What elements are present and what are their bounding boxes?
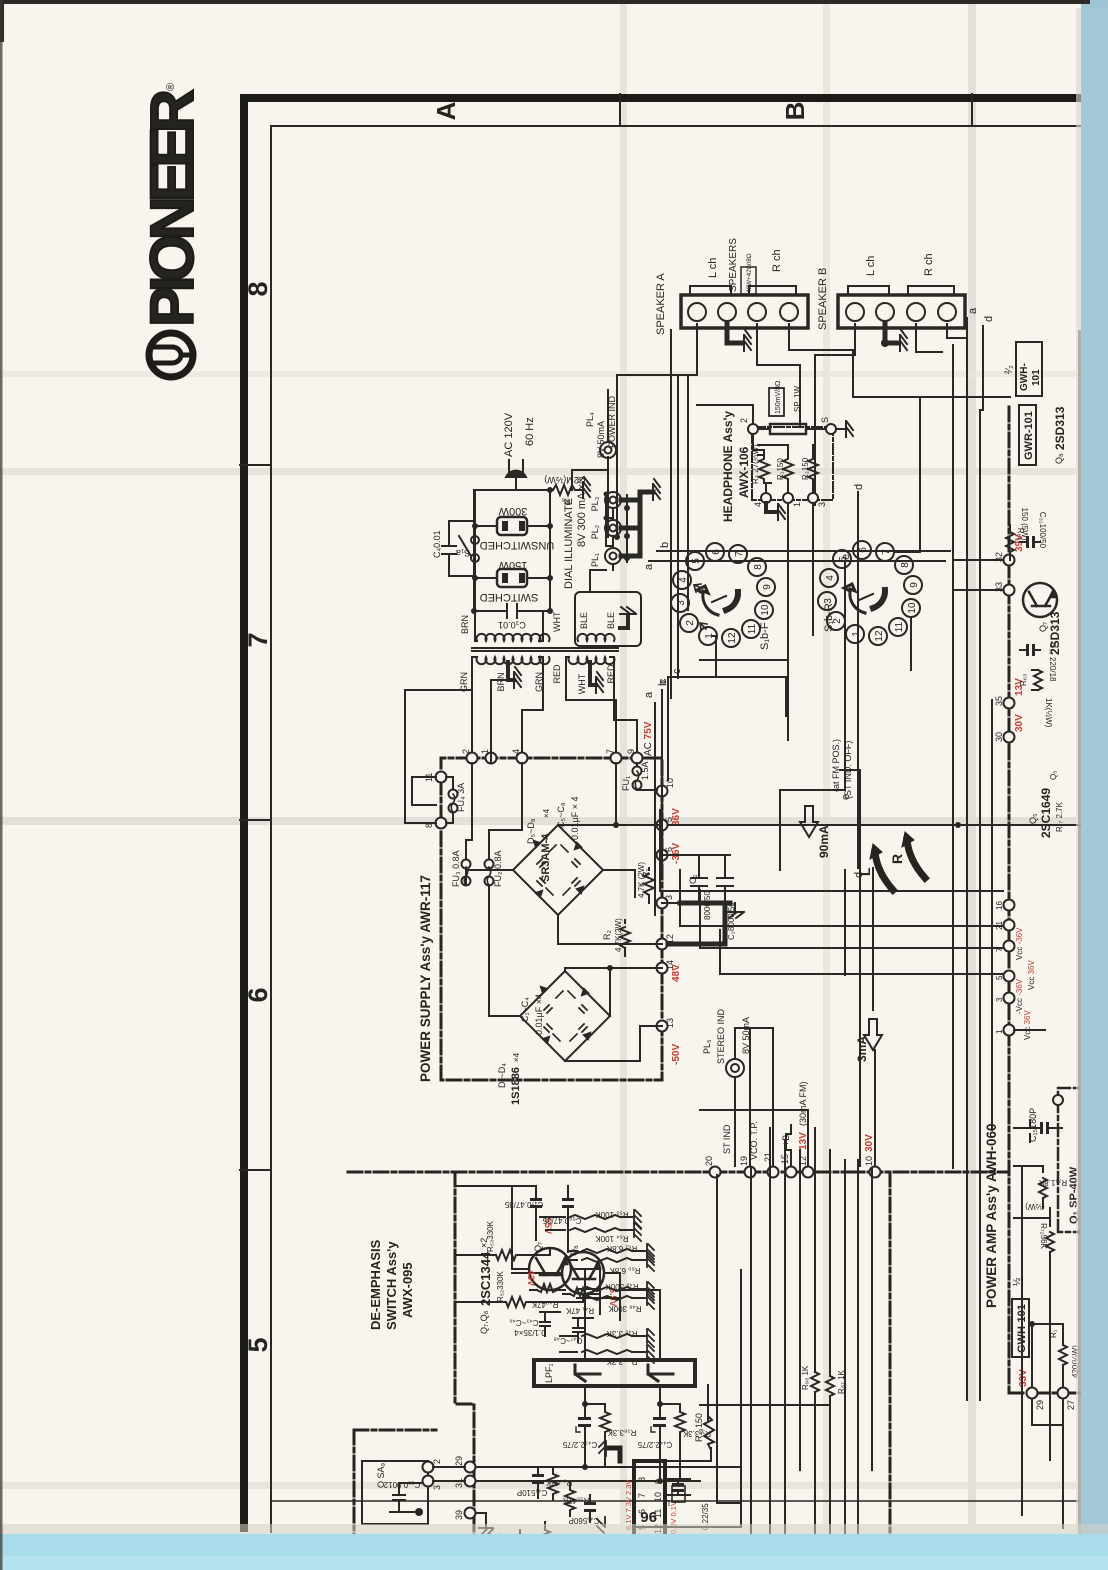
svg-text:3mA: 3mA [855,1036,869,1062]
svg-text:WHT: WHT [552,611,562,632]
svg-text:R₃₈3.3K: R₃₈3.3K [607,1428,636,1437]
svg-text:11: 11 [424,773,434,782]
fold crease vertical 1b [823,4,830,1524]
svg-text:8: 8 [753,564,764,570]
svg-text:PL₁: PL₁ [590,553,600,567]
capacitor C52 0.0012 [390,1483,428,1516]
svg-text:S₁a: S₁a [456,548,470,558]
svg-text:DIAL ILLUMINATE: DIAL ILLUMINATE [563,498,575,589]
svg-text:8: 8 [900,562,911,568]
svg-text:SPEAKER B: SPEAKER B [817,268,829,330]
wire trio v678 [677,375,679,678]
svg-text:AC 120V: AC 120V [503,412,515,457]
ground pin 5 [836,428,844,430]
resistor R38 3.3K [585,1404,610,1467]
pin 35 [1004,698,1015,709]
wiper F [697,586,718,615]
svg-text:1: 1 [704,633,715,639]
svg-text:LPF₁: LPF₁ [544,1363,554,1383]
power amp boundary dash-dot [1009,407,1085,1393]
secondary 1 leads [472,657,477,758]
AC plug P1 [506,460,526,490]
svg-text:12: 12 [727,632,738,644]
wire pin 1 down [787,503,789,740]
svg-text:C₁~C₄: C₁~C₄ [520,997,530,1022]
svg-text:13: 13 [665,1018,675,1028]
svg-text:×4: ×4 [542,808,551,818]
svg-text:5: 5 [243,1337,273,1352]
svg-text:-36V: -36V [671,843,682,864]
ground speaker A return [744,330,751,351]
svg-text:a: a [643,563,655,570]
svg-text:SPEAKERS: SPEAKERS [728,238,739,292]
pin 3 [657,898,668,909]
svg-text:2: 2 [461,749,471,754]
wire d mid [857,492,859,868]
svg-text:GWH-: GWH- [1019,363,1030,391]
wire pin15 [786,1125,791,1166]
svg-text:C₅₂0.0012: C₅₂0.0012 [383,1480,420,1489]
pin 3 [808,493,818,503]
lamp PL1 [605,548,621,564]
svg-text:S₁b-F: S₁b-F [759,622,771,650]
svg-text:7: 7 [734,551,745,557]
svg-text:3: 3 [817,502,827,507]
svg-text:30V: 30V [1014,714,1025,732]
svg-text:6: 6 [858,547,869,553]
wire bridge2 right [609,968,611,1016]
svg-text:8V 50mA: 8V 50mA [741,1017,751,1054]
svg-text:7: 7 [881,549,892,555]
wire AC hot rail [475,489,553,491]
svg-text:R₇₆1.8K: R₇₆1.8K [1038,1178,1067,1187]
svg-text:30: 30 [994,732,1004,742]
svg-text:C₃0.01: C₃0.01 [498,620,526,630]
svg-text:GWR-101: GWR-101 [1023,411,1035,460]
svg-text:POWER IND: POWER IND [607,395,617,448]
resistor R43 150 [704,1385,714,1448]
fold crease horizontal 2 [0,817,1076,825]
wire pin11 loop [412,777,436,805]
svg-text:VCO. T.P.: VCO. T.P. [749,1121,759,1160]
svg-text:AWX-095: AWX-095 [400,1262,415,1318]
svg-text:7: 7 [637,1493,647,1498]
fuse FU3 0.8A [462,860,471,886]
svg-text:27: 27 [1066,1400,1076,1410]
resistor R63 1K [1032,670,1042,690]
resistor R50 150(5W) [1006,525,1014,560]
arrow L thick [870,844,893,890]
wires LPF to transistors [571,1269,660,1360]
svg-text:A: A [431,101,461,120]
Pioneer logo symbol [149,333,194,377]
svg-text:9: 9 [762,584,773,590]
BLE ground [620,616,628,628]
svg-text:35: 35 [994,696,1004,706]
wire amp internal 2 [1049,1208,1051,1460]
pin 39 [465,1508,476,1519]
resistor bank R55 R54 R51 R50 R49 R48 R45 R44 [540,1215,645,1354]
pin 10 [657,786,668,797]
power supply boundary [441,758,662,1080]
wire bottom bundle v815 [814,1128,816,1570]
svg-text:R₈₇ 1K: R₈₇ 1K [837,1369,846,1394]
wire Vcc bundle 4 [720,973,1003,975]
capacitor C50 0.47/35 [562,1186,574,1252]
capacitor 220/18 [1020,644,1040,656]
svg-text:42W+42W/8Ω: 42W+42W/8Ω [746,253,753,293]
wire bottom bundle v858 [857,1160,859,1570]
capacitor C44 2.2/75 [651,1386,666,1481]
svg-text:e: e [840,554,852,560]
resistor R97 1K [826,1376,834,1396]
speaker B terminal strip [838,295,965,328]
pin 13 [657,1021,668,1032]
wire Vcc bundle 2 [680,925,1003,927]
resistor R52 [506,1297,526,1307]
LPF1 block [534,1360,695,1386]
svg-text:Q₇: Q₇ [533,1242,543,1252]
svg-text:R₉₈ 1K: R₉₈ 1K [801,1365,810,1390]
pin 4 [517,753,528,764]
fuse FU2 0.8A [485,860,494,886]
pin 21 [768,1167,779,1178]
pin 1pa [1004,1025,1015,1036]
svg-text:R₁150: R₁150 [776,458,785,480]
wire a long [654,703,656,915]
bracket L ch B [848,286,889,293]
svg-text:4: 4 [825,575,836,581]
IC box [634,1461,665,1570]
svg-text:R₅₀ 6.8K: R₅₀ 6.8K [609,1266,641,1275]
svg-text:9: 9 [653,1479,663,1484]
Q1 SP-40W dashed box [1053,1088,1084,1232]
svg-text:PIONEER: PIONEER [138,90,206,327]
wire top rail to transformer [474,490,476,641]
svg-text:R₇₇ 2.7K: R₇₇ 2.7K [1055,801,1064,832]
svg-text:UNSWITCHED: UNSWITCHED [480,539,555,551]
pin 5 [657,820,668,831]
svg-text:C₁: C₁ [688,874,698,884]
fuse FU4 3A [446,777,458,823]
thick lamp return bus [621,492,653,556]
svg-text:1: 1 [792,502,802,507]
svg-text:FU₃ 0.8A: FU₃ 0.8A [451,850,461,887]
svg-text:R₄₀47K: R₄₀47K [531,1300,558,1309]
wire bottom bundle v872 [871,1168,873,1470]
wire pin32 left [955,559,1003,561]
pin 11 [436,772,447,783]
svg-text:8V 50mA: 8V 50mA [596,421,606,458]
svg-text:1: 1 [995,1029,1004,1034]
resistor R34 47K [548,1467,558,1500]
svg-text:RED: RED [552,664,562,684]
pin 1 [783,493,793,503]
switch S1a [459,536,479,562]
inner border line [271,126,1083,1532]
svg-text:-Vcc -36V: -Vcc -36V [1015,978,1024,1014]
svg-text:5: 5 [995,975,1004,980]
wire pin29 drop [1032,1393,1063,1528]
fuse FU1 1.5A [633,763,658,790]
svg-text:SWITCHED: SWITCHED [480,591,539,603]
svg-text:0.1/35×4: 0.1/35×4 [514,1328,546,1337]
outer border frame [240,94,1083,1532]
svg-text:1K(½W): 1K(½W) [1044,698,1053,728]
wire speaker B terminal 4 [947,324,965,338]
svg-text:2SC1649: 2SC1649 [1039,788,1053,838]
svg-text:2SD313: 2SD313 [1053,406,1067,450]
ground after R5 [577,477,590,498]
wire d lower [872,868,874,1010]
svg-text:Q₅: Q₅ [1049,771,1058,780]
svg-text:SWITCH Assʹy: SWITCH Assʹy [384,1241,399,1330]
pin 3d [423,1476,434,1487]
ground speaker B return [900,330,907,351]
SA9 boundary corner [353,1430,356,1540]
resistor sp level [770,424,806,434]
wire bridge1 right [603,870,635,897]
tuner boundary dash-dot [348,1171,1008,1174]
svg-text:FU₂ 0.8A: FU₂ 0.8A [493,850,503,887]
svg-text:C₄₃2.2/75: C₄₃2.2/75 [562,1440,597,1449]
wire trio v688 [687,375,689,610]
svg-text:C₄0.01: C₄0.01 [432,530,442,558]
svg-text:RED: RED [606,664,616,684]
svg-text:BLE: BLE [579,612,589,629]
capacitor C42 [514,1530,526,1556]
wire u910 [700,659,788,661]
svg-text:4.7K(2W): 4.7K(2W) [614,918,623,952]
capacitor C4 0.01 [442,521,475,576]
capacitor C15 180P [1014,1030,1062,1142]
svg-text:16: 16 [995,901,1004,910]
boxed GWH-101 1/2 [1012,1277,1029,1357]
svg-text:4: 4 [511,749,521,754]
resistor R3 27 [759,455,769,483]
R41 47K R40 47K resistors [530,1284,598,1296]
svg-text:e: e [840,794,852,800]
capacitor L7 0.22/35 [665,1479,690,1502]
svg-text:36V: 36V [671,808,682,826]
svg-text:13V: 13V [798,1132,809,1150]
pins 29 27 [1027,1388,1038,1399]
wire bundle v967 [966,345,968,1400]
wire v717 long [717,1175,741,1503]
arrow R thick [902,832,925,878]
wire 36V rail [668,824,1085,826]
wire bottom bundle v770 [769,1128,771,1570]
wire pin33 left [953,589,1003,591]
pin 12 [657,939,668,950]
svg-text:10: 10 [760,604,771,616]
bridge rectifier D1-D4 [520,971,610,1061]
capacitor C3 0.01 [471,490,553,618]
wire IC bottom corner [634,1270,741,1527]
svg-text:10: 10 [665,778,675,788]
wire pin 2 up [697,405,753,424]
svg-text:BRN: BRN [496,672,506,691]
svg-text:C₄₉560P: C₄₉560P [569,1516,600,1525]
capacitor C2 8000/50 [717,855,733,903]
svg-text:2: 2 [432,1459,442,1464]
emitter wires down [571,1269,600,1314]
wire speaker B terminal 3 [916,324,942,352]
svg-text:300W: 300W [498,505,527,517]
svg-text:R: R [889,854,905,864]
thick return speaker A terminal 2 [727,324,741,343]
svg-text:PL₂: PL₂ [590,524,600,539]
wire pin1 stub [491,680,510,763]
wire from F contact 1 [668,636,786,716]
thick ground IC [608,1448,620,1461]
de-emphasis boundary [455,1172,474,1570]
capacitor C41 510P [532,1467,544,1498]
bracket R ch B [908,286,954,293]
wire long v751 [750,1168,752,1534]
pin 2 [467,753,478,764]
svg-text:0.01μF × 4: 0.01μF × 4 [570,797,580,840]
pin 20 [710,1167,721,1178]
right blue scanner band [1081,0,1108,1570]
pin 15 [786,1167,797,1178]
svg-text:SP. 1W: SP. 1W [793,385,802,412]
contacts ring R [818,541,922,645]
pin 2 [748,424,758,434]
svg-text:d: d [853,484,865,490]
svg-text:D₅~D₈: D₅~D₈ [526,818,536,844]
junction dots outlet rails [472,523,478,529]
resistor R1 420 [1032,1324,1067,1398]
svg-text:21: 21 [763,1152,773,1162]
resistor R98 1K [811,1372,819,1392]
secondary 1 center tap ground [508,662,514,680]
grid tick u1105 [240,464,271,466]
resistor R35 47K [565,1481,575,1516]
grid tick vB [619,94,621,126]
svg-text:R₃₄47K: R₃₄47K [545,1478,572,1487]
svg-text:2: 2 [685,620,696,626]
pin 4 [761,493,771,503]
capacitor C47 0.47/35 [455,1186,542,1240]
svg-text:R₄₁ 47K: R₄₁ 47K [565,1306,594,1315]
fold crease vertical 1 [620,4,627,1524]
svg-text:Q₈: Q₈ [1054,453,1064,464]
wire pin10t long [840,770,860,1166]
svg-text:POWER AMP Assʹy AWH-060: POWER AMP Assʹy AWH-060 [984,1123,999,1308]
svg-text:6: 6 [243,987,273,1002]
wire bottom bundle v830 [829,1150,831,1570]
pin 6 [657,850,668,861]
resistor R2 150 [808,455,818,483]
BLE top lead to lamps [590,570,606,592]
resistor R72 56K [1014,1218,1054,1262]
pin 2d [423,1462,434,1473]
svg-text:L₇: L₇ [663,1498,670,1507]
inner border left line [271,1500,1083,1502]
svg-text:C₂8000/50: C₂8000/50 [727,902,736,940]
svg-text:9: 9 [909,582,920,588]
outlet unswitched 300W [475,517,550,535]
arrow to contact 2 [700,623,707,630]
wire bottom rail to transformer [549,490,551,611]
svg-text:3: 3 [432,1485,442,1490]
pin 1 [486,753,497,764]
svg-text:AC 75V: AC 75V [643,721,654,756]
svg-text:90mA: 90mA [817,825,831,858]
svg-text:11: 11 [894,621,905,632]
wire pin12t up [700,1110,808,1166]
svg-text:R₆₃: R₆₃ [1019,674,1028,686]
grid tick u400 [240,1169,271,1171]
wires pins row2 [433,1467,740,1528]
wire -36V rail [668,854,700,856]
svg-text:WHT: WHT [577,673,587,694]
BLE winding [578,634,615,641]
bridge rectifier D5-D8 [513,825,603,915]
svg-text:4: 4 [753,502,763,507]
power transformer T1 [472,490,641,758]
resistor R53 [496,1250,516,1260]
svg-text:(½W): (½W) [1025,1202,1045,1211]
pin 12t [803,1167,814,1178]
wire bottom bundle v845 [844,1160,846,1570]
resistor R36 33K [540,1522,550,1558]
pin 7 [611,753,622,764]
inner caps [537,859,580,886]
contact numbers R [823,547,920,642]
svg-text:POWER SUPPLY Assʹy AWR-117: POWER SUPPLY Assʹy AWR-117 [418,875,433,1082]
pin 9 [632,753,643,764]
svg-text:B: B [780,102,810,121]
svg-text:BLE: BLE [606,612,616,629]
contacts ring F [671,543,775,647]
wire amp internal 1 [1021,1166,1023,1515]
thick return speaker B terminal 2 [885,324,897,343]
wire Vcc bundle 1 [660,890,1003,892]
svg-text:6: 6 [711,549,722,555]
hollow arrow 90mA [800,806,818,837]
wire pin10t [874,1050,876,1166]
svg-text:R₅₃330K: R₅₃330K [486,1220,495,1252]
svg-text:b: b [659,542,671,548]
fold crease horizontal 3 [0,1482,1076,1489]
svg-text:1.5A: 1.5A [640,761,650,780]
svg-text:4.7K (2W): 4.7K (2W) [637,862,646,898]
svg-text:33V: 33V [1018,1369,1029,1387]
bracket L ch A [690,286,731,293]
svg-text:11: 11 [747,623,758,634]
svg-text:HEADPHONE Assʹy: HEADPHONE Assʹy [721,411,735,522]
wire a top [966,318,968,345]
SA9 box [362,1461,428,1524]
pin 31 [465,1476,476,1487]
svg-text:101: 101 [1031,369,1042,386]
wire speaker A terminal 1 [617,324,697,537]
ground cluster small [597,1517,605,1533]
wire bridge2 left from FU2 [489,885,520,1016]
svg-text:96: 96 [640,1508,657,1525]
resistor R5 22M [553,485,577,495]
svg-text:d: d [983,316,995,322]
svg-text:GRN: GRN [534,672,544,692]
wire bridge1 top to pin5 [558,824,662,826]
svg-text:STEREO IND: STEREO IND [716,1008,726,1064]
svg-text:31: 31 [454,1478,464,1488]
svg-text:R₄₅ 3.3K: R₄₅ 3.3K [606,1329,638,1338]
wire bundle v980 [979,410,981,1400]
svg-text:Vcc -36V: Vcc -36V [1015,927,1024,960]
